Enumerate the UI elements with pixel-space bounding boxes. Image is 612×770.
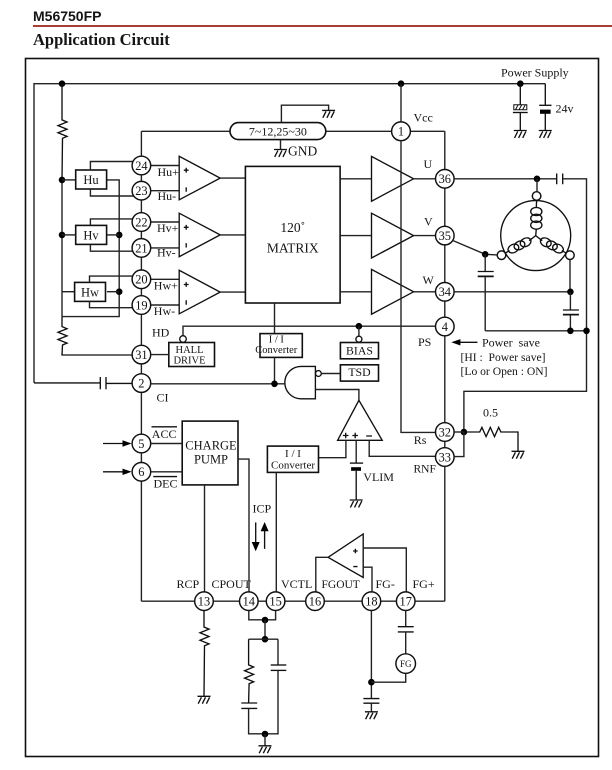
wire I/I-1 down to CI node — [274, 357, 276, 383]
wire Hw to pin20 — [90, 276, 135, 282]
svg-text:W: W — [423, 273, 435, 287]
svg-text:FG: FG — [400, 659, 412, 669]
capacitor C-fg1 — [398, 611, 414, 654]
wire FG to node — [371, 673, 405, 682]
pin 19 — [132, 296, 151, 315]
wire A-W to pin34 — [414, 291, 436, 293]
capacitor C-v — [478, 254, 494, 330]
pin 6 — [132, 463, 151, 482]
node W junction — [567, 289, 574, 296]
wire IC bottom edge — [141, 600, 444, 602]
svg-text:FG-: FG- — [376, 577, 395, 591]
svg-text:M56750FP: M56750FP — [33, 8, 101, 24]
svg-text:Hv: Hv — [83, 228, 99, 242]
svg-text:PUMP: PUMP — [194, 453, 228, 467]
wire charge pump to pin14 — [238, 459, 249, 592]
svg-text:24: 24 — [135, 159, 147, 173]
node Hw return — [116, 288, 123, 295]
bubble bias input — [356, 336, 362, 342]
capacitor C-fg2 — [363, 699, 379, 712]
bubble TSD gate out — [316, 371, 322, 377]
svg-text:V: V — [424, 215, 433, 229]
block I/I converter 1 — [260, 334, 302, 358]
svg-text:24v: 24v — [556, 102, 574, 116]
pin 23 — [132, 181, 151, 200]
node V junction — [482, 251, 489, 258]
capacitor C1 24v — [539, 84, 551, 131]
ground VLIM — [350, 500, 363, 507]
svg-text:5: 5 — [138, 437, 144, 451]
pin 2 — [132, 374, 151, 393]
label DEC overline — [153, 477, 177, 491]
pin 17 — [396, 592, 415, 611]
wire A-main plus1 to I/I-2 — [319, 440, 346, 457]
wire Hv to pin22 — [90, 219, 134, 226]
node Rs junction — [461, 429, 468, 436]
wire A-FG minus to pin18 — [363, 567, 372, 592]
svg-text:HALL: HALL — [176, 345, 204, 356]
svg-text:ACC: ACC — [152, 427, 177, 441]
wire BIAS stub — [358, 326, 360, 336]
ground under C1 — [539, 131, 552, 138]
wire pin22 to amp — [151, 221, 179, 223]
svg-text:2: 2 — [138, 377, 144, 391]
op-amp A-Hu — [179, 156, 220, 200]
wire IC top edge — [141, 130, 444, 132]
amp A-U — [372, 156, 414, 201]
pin 32 — [436, 423, 455, 442]
wire node down to pin33 — [454, 432, 464, 457]
capacitor C-u — [557, 174, 563, 185]
svg-text:HD: HD — [152, 326, 170, 340]
sensor Hu box — [76, 170, 107, 189]
wire W phase — [454, 291, 570, 293]
ground filter — [259, 746, 272, 753]
wire Hw to pin19 — [90, 301, 135, 307]
svg-text:6: 6 — [138, 465, 144, 479]
sensor FG — [396, 654, 416, 674]
wire A-main plus2 stub — [355, 440, 357, 462]
wire Hw left stub — [62, 291, 75, 293]
wire pin32 to node — [454, 431, 464, 433]
wire Hu left stub — [62, 179, 76, 181]
wire I/I-2 down to pin15 — [275, 472, 277, 592]
pin 34 — [436, 283, 455, 302]
pin 5 — [132, 434, 151, 453]
ground R-rcp — [198, 696, 211, 703]
capacitor C-filter-b — [265, 639, 286, 734]
svg-text:I / I: I / I — [269, 335, 285, 346]
wire pin6 to charge pump — [151, 471, 182, 473]
wire Hu to pin24 — [90, 162, 133, 171]
terminal motor right — [566, 251, 575, 260]
svg-text:7~12,25~30: 7~12,25~30 — [249, 125, 307, 139]
battery VLIM — [350, 463, 363, 500]
svg-text:Converter: Converter — [271, 460, 315, 472]
svg-text:32: 32 — [439, 425, 451, 439]
block BIAS — [340, 343, 378, 359]
wire stadium bottom stub — [280, 140, 282, 150]
op-amp A-Hw — [179, 270, 220, 314]
svg-text:Hw+: Hw+ — [154, 279, 178, 293]
node W bottom junction — [567, 328, 574, 335]
motor outline — [501, 201, 571, 271]
sensor Hv box — [76, 225, 107, 244]
wire HD line to pin4 — [183, 326, 436, 335]
wire U phase right leg — [464, 179, 587, 432]
terminal motor top — [532, 192, 541, 201]
sensor Hw box — [75, 282, 106, 301]
wire pin24 to amp — [151, 165, 179, 167]
svg-text:1: 1 — [398, 125, 404, 139]
svg-text:RCP: RCP — [177, 577, 200, 591]
wire pin23 to amp — [151, 190, 179, 192]
resistor R-filter — [245, 639, 254, 703]
wire gate out to amp apex — [315, 390, 359, 401]
wire hall return bus x119 — [62, 180, 119, 317]
node Hv return — [116, 232, 123, 239]
svg-text:19: 19 — [135, 298, 147, 312]
svg-text:0.5: 0.5 — [483, 406, 498, 420]
wire top supply rail — [34, 84, 545, 383]
svg-text:35: 35 — [439, 229, 451, 243]
wire CI line — [151, 383, 291, 385]
svg-text:I / I: I / I — [285, 448, 301, 460]
wire pin18 down — [370, 611, 372, 699]
winding W coil — [536, 236, 566, 255]
svg-text:18: 18 — [365, 595, 377, 609]
capacitor C-filter-a — [241, 703, 265, 734]
arrow into pin6 — [103, 469, 132, 475]
wire U phase — [454, 178, 556, 180]
svg-text:Rs: Rs — [414, 433, 427, 447]
svg-text:Hw: Hw — [81, 285, 99, 299]
svg-text:22: 22 — [135, 215, 147, 229]
pin 35 — [436, 226, 455, 245]
wire A-V to pin35 — [414, 235, 436, 237]
wire filter gnd stem — [264, 734, 266, 746]
svg-text:4: 4 — [442, 320, 448, 334]
ground GND — [274, 150, 287, 157]
svg-text:Power Supply: Power Supply — [501, 66, 569, 80]
winding V coil — [505, 236, 535, 255]
pin 14 — [240, 592, 259, 611]
arrow ICP down — [252, 522, 260, 551]
wire IC right edge — [444, 131, 446, 601]
wire matrix to I/I converter — [274, 303, 276, 334]
wire Hv to pin21 — [90, 244, 133, 251]
wire A-U to pin36 — [414, 178, 436, 180]
svg-text:15: 15 — [269, 595, 281, 609]
wire charge pump to pin13 — [204, 485, 206, 592]
wire pin20 to amp — [151, 278, 179, 280]
wire matrix to A-U — [340, 178, 371, 180]
pin 33 — [436, 448, 455, 467]
svg-text:17: 17 — [400, 595, 412, 609]
red header rule — [33, 25, 612, 27]
node top-left junction — [59, 80, 66, 87]
capacitor C-ps hatched — [513, 84, 528, 131]
wire A-FG plus to pin17 — [363, 548, 406, 592]
svg-text:16: 16 — [309, 595, 321, 609]
svg-text:[HI : Power save]: [HI : Power save] — [461, 351, 546, 364]
svg-text:36: 36 — [439, 172, 451, 186]
pin 15 — [266, 592, 285, 611]
terminal motor left — [497, 251, 506, 260]
svg-text:Converter: Converter — [255, 345, 297, 356]
wire Hv left stub — [62, 234, 76, 236]
svg-text:31: 31 — [135, 348, 147, 362]
arrow into pin5 — [103, 440, 132, 446]
svg-text:Hu-: Hu- — [158, 189, 177, 203]
ground R-0.5 — [512, 451, 525, 458]
svg-text:CHARGE: CHARGE — [185, 439, 237, 453]
node U-motor junction — [534, 176, 541, 183]
wire pin19 to amp — [151, 304, 179, 306]
op-amp A-main — [338, 400, 383, 440]
svg-text:ICP: ICP — [253, 502, 272, 516]
node Hv bias — [59, 232, 66, 239]
pin 31 — [132, 345, 151, 364]
wire A-main minus to pin33 — [369, 440, 435, 456]
svg-text:[Lo or Open : ON]: [Lo or Open : ON] — [461, 365, 548, 378]
wire pin15 down — [265, 611, 276, 620]
wire matrix to A-W — [340, 291, 371, 293]
ground top small — [322, 110, 335, 117]
wire pin21 to amp — [151, 247, 179, 249]
svg-text:MATRIX: MATRIX — [267, 241, 319, 256]
node HD-BIAS junction — [356, 323, 363, 330]
svg-text:DRIVE: DRIVE — [173, 355, 205, 366]
svg-text:RNF: RNF — [414, 464, 436, 476]
wire Hv right stub — [107, 234, 120, 236]
wire matrix to A-V — [340, 235, 371, 237]
block 120 MATRIX — [245, 166, 340, 303]
svg-text:Hu: Hu — [83, 173, 99, 187]
svg-text:Application Circuit: Application Circuit — [33, 30, 170, 49]
node cpout top — [262, 617, 269, 624]
node Hu bias — [59, 177, 66, 184]
pins 7~12,25~30 stadium — [230, 123, 326, 140]
svg-text:23: 23 — [135, 184, 147, 198]
svg-text:Hu+: Hu+ — [158, 165, 180, 179]
block TSD — [340, 365, 378, 381]
wire pin1 stem — [400, 84, 402, 122]
wire Hu to pin23 — [90, 189, 134, 196]
op-amp A-Hv — [179, 213, 220, 257]
svg-text:Hw-: Hw- — [154, 304, 175, 318]
resistor R-hall-drive — [58, 317, 133, 355]
wire A-Hv out — [220, 234, 245, 236]
svg-text:13: 13 — [198, 595, 210, 609]
label ACC overline — [152, 427, 178, 441]
wire pin35 diagonal — [453, 241, 497, 255]
wire A-Hu out — [220, 177, 245, 179]
bubble hall-drive input — [180, 336, 187, 343]
svg-text:FG+: FG+ — [413, 577, 435, 591]
ground C-fg2 — [365, 712, 378, 719]
wire stadium to top gnd — [281, 105, 328, 122]
amp A-W — [372, 269, 414, 314]
svg-text:Power save: Power save — [482, 336, 540, 350]
wire motor right leg — [569, 260, 571, 292]
pin 22 — [132, 213, 151, 232]
svg-text:BIAS: BIAS — [346, 343, 373, 357]
wire V cap to bottom rail — [485, 330, 586, 332]
svg-text:Vcc: Vcc — [414, 111, 433, 125]
node fg junction — [368, 679, 375, 686]
pin 20 — [132, 270, 151, 289]
pin 16 — [306, 592, 325, 611]
svg-text:14: 14 — [243, 595, 255, 609]
svg-text:120˚: 120˚ — [280, 220, 305, 235]
ground under C-ps — [514, 131, 527, 138]
svg-text:DEC: DEC — [154, 477, 178, 491]
svg-text:CPOUT: CPOUT — [212, 577, 252, 591]
block HALL DRIVE — [169, 343, 215, 367]
node U bottom junction — [583, 328, 590, 335]
gate TSD nand — [285, 366, 316, 398]
wire gate to TSD box — [321, 373, 340, 375]
resistor R-top-left — [58, 84, 67, 180]
wire Vcc internal to Rs — [401, 141, 436, 433]
wire IC left edge — [140, 131, 142, 601]
pin 18 — [362, 592, 381, 611]
wire filter top spread — [249, 638, 278, 640]
block CHARGE PUMP — [182, 421, 238, 485]
arrow power save — [451, 339, 477, 345]
svg-text:34: 34 — [439, 285, 451, 299]
svg-text:TSD: TSD — [348, 365, 371, 379]
wire pin14 down — [249, 611, 265, 620]
wire motor top stem — [536, 179, 538, 192]
capacitor C-w — [563, 292, 579, 331]
svg-text:U: U — [424, 157, 433, 171]
node filter bottom — [262, 731, 269, 738]
pin 4 — [436, 317, 455, 336]
wire pin5 to charge pump — [151, 443, 182, 445]
wire A-Hw out — [220, 291, 245, 293]
winding U coil — [531, 200, 542, 235]
pin 21 — [132, 239, 151, 258]
svg-text:Hv-: Hv- — [157, 246, 176, 260]
node power-supply junction — [517, 80, 524, 87]
svg-text:21: 21 — [135, 241, 147, 255]
svg-text:VCTL: VCTL — [281, 577, 312, 591]
node CI junction — [271, 381, 278, 388]
node Vcc junction — [398, 80, 405, 87]
amp A-V — [372, 213, 414, 258]
svg-text:PS: PS — [418, 335, 431, 349]
resistor R-0.5 — [464, 427, 518, 451]
svg-text:33: 33 — [439, 450, 451, 464]
wire node link — [264, 620, 266, 639]
svg-text:Hv+: Hv+ — [157, 221, 179, 235]
block I/I converter 2 — [267, 446, 318, 472]
pin 13 — [195, 592, 214, 611]
node cpout bottom — [262, 636, 269, 643]
svg-text:GND: GND — [288, 144, 317, 159]
wire A-FG out to pin16 — [316, 557, 328, 592]
pin 24 — [132, 156, 151, 175]
capacitor C-ci — [34, 377, 132, 389]
svg-text:20: 20 — [135, 273, 147, 287]
wire hall bias bus x62 — [61, 180, 63, 317]
pin 36 — [436, 170, 455, 189]
wire Hw right stub — [107, 291, 119, 293]
resistor R-rcp — [200, 611, 209, 697]
pin 1 — [392, 122, 411, 141]
op-amp A-FG — [328, 534, 363, 577]
svg-text:FGOUT: FGOUT — [322, 579, 360, 591]
wire pin31 to hall drive — [151, 354, 169, 356]
arrow ICP up — [261, 522, 269, 549]
svg-text:CI: CI — [157, 391, 169, 405]
svg-text:VLIM: VLIM — [363, 470, 394, 484]
